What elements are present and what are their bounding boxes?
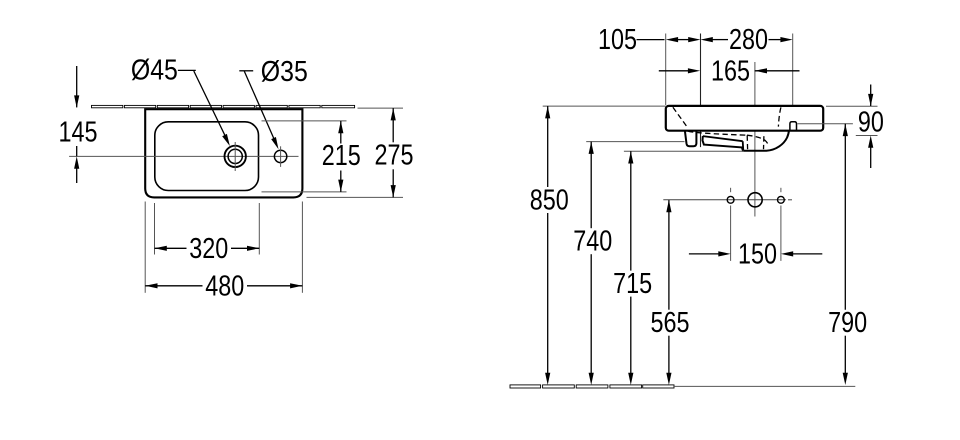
bowl underside step: [742, 141, 745, 150]
dimension 565: [666, 200, 671, 212]
dimension 215: [338, 121, 343, 133]
bowl underside top edge: [703, 136, 743, 141]
overflow outlet: [790, 122, 797, 131]
centerline horizontal: [69, 155, 298, 157]
svg-text:145: 145: [59, 117, 98, 149]
dimension 150: [689, 253, 719, 255]
dimension 320: [155, 246, 167, 251]
hidden line inner bowl back: [673, 107, 687, 127]
svg-text:740: 740: [573, 226, 612, 258]
extension line basin left edge: [665, 34, 667, 106]
inner bowl (top view): [155, 122, 259, 191]
floor line extension: [674, 385, 855, 387]
faucet hole D45: [225, 146, 246, 167]
mounting bracket (side view): [685, 131, 697, 146]
svg-text:850: 850: [530, 185, 569, 217]
svg-text:105: 105: [598, 24, 637, 56]
svg-text:Ø35: Ø35: [261, 56, 308, 88]
hidden line drain left: [746, 135, 748, 149]
mounting hole left: [727, 196, 734, 203]
floor section line: [510, 385, 541, 388]
hole D35: [274, 150, 286, 162]
dimension 790: [843, 124, 848, 136]
extension line 850: [543, 105, 666, 107]
extension line overflow: [797, 123, 853, 125]
hidden line bowl to drain: [747, 135, 769, 146]
svg-text:165: 165: [711, 55, 750, 87]
faucet axis line: [700, 34, 702, 148]
svg-text:215: 215: [322, 140, 361, 172]
svg-text:280: 280: [729, 24, 768, 56]
svg-text:790: 790: [828, 307, 867, 339]
dimension 165: [659, 70, 689, 72]
extension lines 275: [358, 107, 404, 109]
extension line 715: [624, 150, 744, 152]
dimension 280: [701, 37, 713, 42]
centerline through mounting holes: [663, 199, 786, 201]
vertical centerline: [754, 62, 756, 217]
extension line 740: [586, 141, 684, 143]
svg-text:320: 320: [189, 233, 228, 265]
mounting hole right: [778, 196, 785, 203]
svg-text:150: 150: [738, 238, 777, 270]
washbasin outer rim (top view): [145, 109, 302, 197]
wall section line (top view): [92, 105, 123, 107]
dimension 145: [76, 66, 78, 107]
svg-text:Ø45: Ø45: [131, 55, 178, 87]
svg-text:90: 90: [858, 106, 884, 138]
svg-text:275: 275: [375, 140, 414, 172]
washbasin rim (side view): [666, 106, 823, 131]
dimension 740: [589, 142, 594, 154]
dimension 275: [391, 108, 396, 120]
dimension 480: [145, 283, 157, 288]
hidden line bowl bottom: [688, 131, 747, 135]
extension lines below basin: [144, 202, 146, 293]
hidden line overflow channel: [778, 107, 781, 126]
extension lines 90: [826, 105, 878, 107]
dimension 90: [870, 85, 872, 107]
extension lines 215: [262, 120, 347, 122]
dimension 715: [628, 151, 633, 163]
svg-text:565: 565: [651, 307, 690, 339]
dimension 850: [545, 106, 550, 118]
extension line overflow axis: [792, 34, 794, 122]
bowl underside outline: [703, 131, 789, 151]
svg-text:480: 480: [205, 270, 244, 302]
hidden line drain right: [763, 136, 765, 149]
svg-text:715: 715: [613, 268, 652, 300]
drain hole circle: [748, 193, 762, 207]
